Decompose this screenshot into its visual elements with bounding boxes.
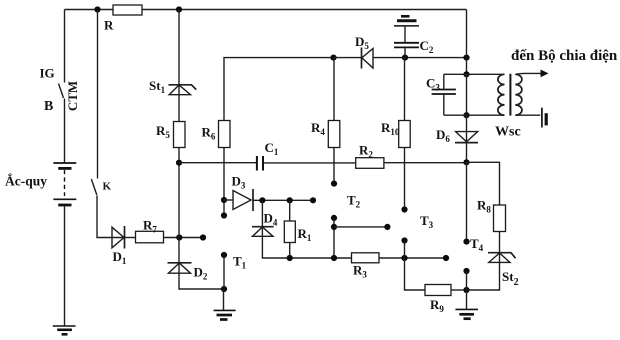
switch IG/B lever: [59, 84, 64, 99]
wire to D5: [334, 57, 362, 59]
resistor R7: [136, 231, 164, 243]
node junction D4 top: [259, 197, 265, 203]
node junction R7/D2 column: [176, 234, 182, 240]
wire D5 to C2 junction: [373, 57, 467, 59]
resistor R5: [174, 122, 186, 148]
wire St1 to R5: [178, 95, 180, 122]
node junction C2/R10: [402, 55, 408, 61]
diode D4: [252, 200, 274, 236]
resistor R2: [356, 158, 384, 169]
capacitor C2: [394, 43, 419, 48]
wire T1 emitter down: [223, 255, 225, 289]
wire R9 to junction: [451, 289, 467, 291]
svg-text:đến Bộ chia điện: đến Bộ chia điện: [511, 48, 618, 64]
wire top bus: [65, 9, 467, 11]
wire to T3 base: [334, 226, 387, 228]
node T1 collector: [221, 212, 227, 218]
node junction R1 bottom: [287, 255, 293, 261]
diode D5: [362, 48, 374, 69]
wire D4 bottom / emitter bus: [262, 236, 446, 258]
wire D6 to junction: [466, 143, 468, 163]
wire junction to T4 collector: [466, 162, 468, 241]
wire ground to C2: [404, 27, 406, 43]
diode D3: [224, 189, 253, 211]
node T3 base: [384, 224, 390, 230]
node T4 base: [443, 255, 449, 261]
wire loop top: [444, 73, 505, 75]
wire rail C1 to R2: [263, 162, 356, 164]
node junction loop top: [463, 71, 469, 77]
node junction T2 emitter on bus: [331, 255, 337, 261]
resistor R8: [494, 205, 506, 232]
wire loop bottom to D6: [466, 115, 468, 131]
svg-text:Ắc-quy: Ắc-quy: [5, 174, 47, 189]
switch K lever: [91, 179, 97, 195]
wire secondary to ground: [515, 114, 540, 116]
node junction loop bottom: [463, 112, 469, 118]
wire K to D1 corner: [97, 196, 107, 238]
node junction T3 emitter on bus: [401, 255, 407, 261]
ground sideways secondary: [542, 108, 546, 128]
resistor R1: [284, 200, 295, 258]
wire R8 to St2: [499, 232, 501, 253]
wire battery to ground: [64, 207, 66, 326]
diode D1: [107, 226, 125, 249]
node junction top R column: [176, 6, 182, 12]
node T4 collector: [463, 239, 469, 245]
resistor R10: [399, 121, 411, 148]
wire left battery column upper: [64, 10, 66, 83]
node junction R1 top: [287, 197, 293, 203]
wire right column top: [466, 10, 468, 75]
wire rail C1 left: [179, 162, 257, 164]
wire R column to St1: [178, 10, 180, 86]
svg-text:Wsc: Wsc: [495, 125, 521, 140]
coil core: [509, 74, 511, 116]
node junction D3 anode: [221, 197, 227, 203]
ground inverted above C2: [394, 16, 419, 26]
capacitor C3: [432, 74, 456, 115]
node T2 emitter: [331, 215, 337, 221]
svg-text:CTM: CTM: [65, 81, 80, 111]
wire R6 bottom to D3 junction and T1 collector: [223, 148, 225, 216]
resistor R3: [352, 253, 380, 263]
node junction rail left: [176, 160, 182, 166]
svg-text:B: B: [44, 99, 53, 114]
wire T3 emitter down to R9 bus: [405, 241, 426, 291]
wire R10 column: [404, 58, 406, 210]
svg-text:K: K: [103, 181, 112, 193]
wire St2 bottom leg: [467, 262, 500, 290]
node junction top CTM branch: [94, 6, 100, 12]
ground battery: [53, 326, 76, 334]
svg-text:R: R: [104, 18, 114, 33]
svg-text:IG: IG: [40, 66, 55, 81]
wire R8 branch: [467, 162, 500, 205]
wire secondary output arrow: [515, 70, 548, 78]
diode D2: [168, 263, 192, 273]
resistor R4: [328, 121, 340, 148]
node T2 base: [310, 197, 316, 203]
battery Ac-quy: [53, 163, 76, 205]
node junction D6/rail/R8: [463, 159, 469, 165]
wire T2 emitter down: [333, 218, 335, 258]
resistor R6: [219, 121, 231, 148]
coil Wsc primary: [498, 74, 505, 115]
ground T1: [214, 310, 236, 319]
coil Wsc secondary: [515, 74, 522, 115]
wire CTM column: [97, 10, 99, 179]
node T3 collector: [401, 206, 407, 212]
capacitor C1: [257, 156, 263, 171]
wire R4 column: [333, 58, 335, 184]
node T2 collector: [331, 181, 337, 187]
ground R9: [455, 290, 478, 319]
zener St2: [488, 253, 516, 263]
wire R6 top branch: [224, 58, 334, 121]
zener St1: [169, 85, 197, 95]
wire D3 to T2 base: [253, 199, 313, 201]
resistor R: [113, 5, 142, 15]
node T1 base: [200, 234, 206, 240]
node junction R9/ground: [463, 287, 469, 293]
node junction T1 emitter/ground: [221, 286, 227, 292]
node junction R4 top: [330, 55, 336, 61]
wire T4 emitter down: [466, 271, 468, 290]
wire through loop: [466, 74, 468, 115]
node T4 emitter: [463, 268, 469, 274]
wire loop bottom: [444, 114, 505, 116]
wire D2 to ground bus: [179, 273, 224, 289]
resistor R9: [425, 285, 451, 296]
wire ground stub T1: [223, 289, 225, 310]
wire R5 to rail and down to D2: [178, 148, 180, 263]
node T1 emitter: [221, 252, 227, 258]
node end of top branch at right column: [463, 55, 469, 61]
diode D6: [455, 132, 478, 143]
wire R7 to T1 base: [164, 237, 204, 239]
wire D1 to R7: [125, 237, 136, 239]
wire C2 to junction: [404, 48, 406, 58]
node junction T3 base branch: [331, 224, 337, 230]
wire rail R2 to D6 junction: [384, 162, 467, 164]
wire battery column to battery: [64, 99, 66, 163]
node T3 emitter: [401, 237, 407, 243]
